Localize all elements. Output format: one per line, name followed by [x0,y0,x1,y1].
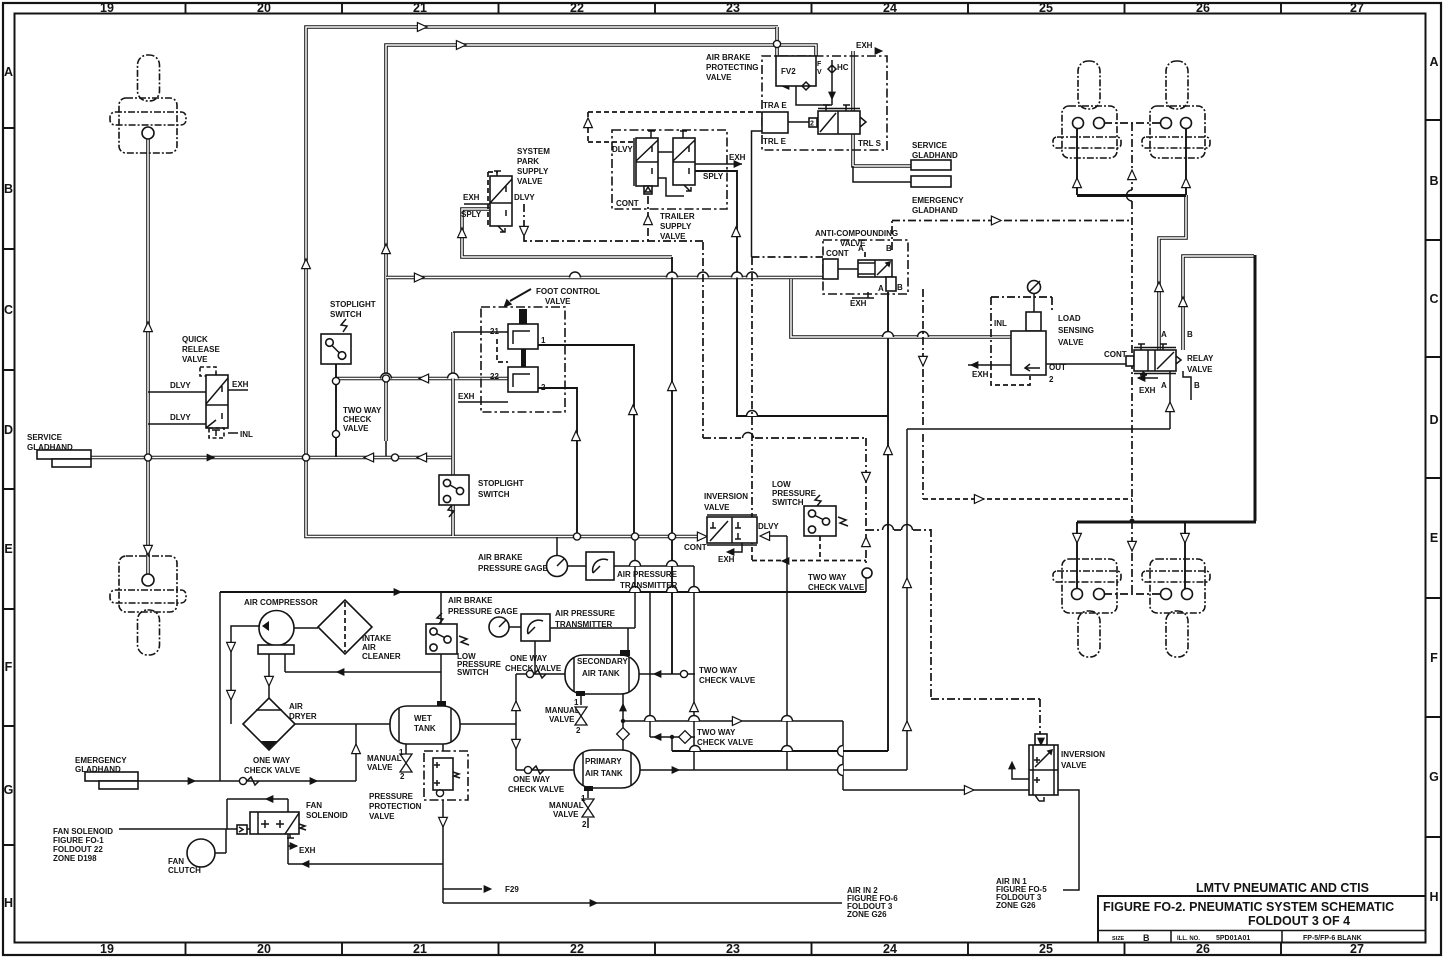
svg-text:TRA E: TRA E [763,101,787,110]
svg-text:SENSING: SENSING [1058,326,1094,335]
svg-text:VALVE: VALVE [517,177,543,186]
svg-text:TANK: TANK [414,724,436,733]
svg-text:GLADHAND: GLADHAND [912,206,958,215]
svg-text:AIR: AIR [289,702,303,711]
emergency gladhand bar left [85,772,138,781]
svg-text:ANTI-COMPOUNDING: ANTI-COMPOUNDING [815,229,898,238]
svg-text:AIR BRAKE: AIR BRAKE [706,53,751,62]
svg-text:MANUAL: MANUAL [549,801,584,810]
svg-text:A: A [858,244,864,253]
svg-text:D: D [4,423,13,437]
dash CTIS center column x1132 [1131,123,1133,594]
svg-text:DLVY: DLVY [758,522,779,531]
svg-text:SWITCH: SWITCH [330,310,362,319]
svg-text:SUPPLY: SUPPLY [517,167,549,176]
svg-text:5PD01A01: 5PD01A01 [1216,935,1250,942]
svg-text:FIGURE FO-1: FIGURE FO-1 [53,836,104,845]
svg-text:SWITCH: SWITCH [478,490,510,499]
svg-text:HC: HC [837,63,849,72]
svg-text:AIR BRAKE: AIR BRAKE [448,596,493,605]
dash anti-compounding CONT x752 [752,257,824,515]
manual valve MV2 [575,707,587,725]
wire x386 lower single [385,441,387,458]
svg-text:SWITCH: SWITCH [457,668,489,677]
humps on buses [570,272,581,278]
wire inversion valve EXH [728,543,742,552]
svg-text:23: 23 [726,942,740,956]
svg-text:AIR BRAKE: AIR BRAKE [478,553,523,562]
wire foot valve feed y378 (double) [336,377,508,381]
svg-text:2: 2 [582,820,587,829]
svg-text:FOLDOUT 3 OF 4: FOLDOUT 3 OF 4 [1248,914,1350,928]
wire transmitter2 drop [550,536,635,650]
svg-text:AIR TANK: AIR TANK [585,769,623,778]
wire relay B riser (double) [1183,256,1254,350]
svg-text:INVERSION: INVERSION [704,492,748,501]
svg-text:A: A [1429,55,1438,69]
svg-text:STOPLIGHT: STOPLIGHT [478,479,524,488]
svg-text:FAN SOLENOID: FAN SOLENOID [53,827,113,836]
TRA E block [762,112,788,133]
front tire valve left [1053,61,1121,158]
primary air tank [574,750,640,788]
wire foot valve delivery 2 [538,388,577,536]
svg-text:EXH: EXH [972,370,989,379]
svg-text:26: 26 [1196,942,1210,956]
svg-text:AIR PRESSURE: AIR PRESSURE [555,609,616,618]
svg-text:EXH: EXH [463,193,480,202]
wire main loop service (double) [306,27,778,537]
svg-text:24: 24 [883,1,897,15]
svg-text:CHECK VALVE: CHECK VALVE [808,583,865,592]
check diamond y737 [679,731,692,744]
svg-text:PARK: PARK [517,157,539,166]
svg-text:TWO WAY: TWO WAY [343,406,382,415]
low pressure switch LPS2 [804,506,836,536]
svg-text:B: B [886,244,892,253]
svg-text:2: 2 [541,383,546,392]
svg-text:F29: F29 [505,885,519,894]
wire wet tank outlet [460,723,516,725]
svg-text:PRESSURE GAGE: PRESSURE GAGE [448,607,518,616]
wire relay B bracket [1138,371,1191,400]
svg-text:EXH: EXH [718,555,735,564]
secondary air tank [565,655,639,694]
manual valve MV1 [400,754,412,772]
hollow arrows [417,23,427,32]
svg-text:ONE WAY: ONE WAY [253,756,291,765]
svg-text:TWO WAY: TWO WAY [808,573,847,582]
svg-text:F: F [817,61,822,68]
wire check drop x866 [865,577,867,592]
svg-text:EXH: EXH [856,41,873,50]
svg-text:V: V [817,69,822,76]
svg-text:B: B [4,182,13,196]
service gladhand bar left [37,450,91,459]
svg-text:B: B [1429,174,1438,188]
gladhand plug bottom left [110,556,186,655]
svg-text:LMTV PNEUMATIC AND CTIS: LMTV PNEUMATIC AND CTIS [1196,881,1369,895]
svg-text:PRESSURE: PRESSURE [772,489,817,498]
wire port21 link [453,331,508,333]
svg-text:A: A [1161,381,1167,390]
service gladhand bar right [911,160,951,170]
svg-text:TWO WAY: TWO WAY [699,666,738,675]
dash anti-comp A pilot [864,252,866,258]
svg-text:CONT: CONT [684,543,707,552]
fan clutch [187,839,215,867]
svg-text:VALVE: VALVE [660,232,686,241]
svg-text:19: 19 [100,942,114,956]
svg-text:VALVE: VALVE [1058,338,1084,347]
svg-text:GLADHAND: GLADHAND [27,443,73,452]
svg-text:CONT: CONT [1104,350,1127,359]
right band ticks [1426,120,1442,837]
dash x923 load sensing pilot [922,289,924,499]
svg-text:TWO WAY: TWO WAY [697,728,736,737]
svg-text:C: C [4,303,13,317]
svg-text:SUPPLY: SUPPLY [660,222,692,231]
wire manual valve stubs [406,694,588,798]
anti-compounding valve ACV [823,240,908,294]
svg-text:EXH: EXH [1139,386,1156,395]
svg-text:G: G [4,783,14,797]
svg-text:CHECK VALVE: CHECK VALVE [505,664,562,673]
dash y220 anti-comp B [892,221,1132,251]
wire inversion valve DLVY [768,536,787,770]
foot control valve FCV [481,307,565,412]
svg-text:21: 21 [490,327,499,336]
svg-text:CHECK VALVE: CHECK VALVE [697,738,754,747]
dash x703 to inversion pilot [703,242,866,566]
manual valve MV3 [582,799,594,817]
wire transmitter1 drop [614,566,694,770]
wire tank crossover y721 [623,721,843,790]
wire emergency gladhand right [853,166,911,182]
fan solenoid valve [237,825,247,834]
svg-text:INL: INL [240,430,253,439]
svg-text:WET: WET [414,714,432,723]
dash system park DLVY control [524,204,703,241]
svg-text:2: 2 [522,314,527,323]
svg-text:PRESSURE GAGE: PRESSURE GAGE [478,564,548,573]
bottom band ticks [186,943,1282,956]
svg-text:DLVY: DLVY [514,193,535,202]
wire rear tires bus [1077,521,1256,524]
svg-text:MANUAL: MANUAL [545,706,580,715]
gladhand plug top left [110,55,186,153]
wire quick release stubs [148,390,248,433]
wire gauge1 tap [557,537,586,566]
svg-text:FOOT CONTROL: FOOT CONTROL [536,287,600,296]
svg-text:ZONE G26: ZONE G26 [847,910,887,919]
wire load sensing out [968,364,1126,365]
wire PPV drop and F29 [443,800,842,903]
wire x672 column [671,257,673,674]
svg-text:PRESSURE: PRESSURE [369,792,414,801]
wire anticomp EXH stub [852,292,874,298]
svg-text:27: 27 [1350,942,1364,956]
wire fan circuit [119,799,443,864]
svg-text:PROTECTION: PROTECTION [369,802,422,811]
svg-text:F: F [5,660,13,674]
air pressure transmitter T1 [586,552,614,580]
svg-text:CHECK VALVE: CHECK VALVE [508,785,565,794]
wire inversion2 feed [843,768,1079,890]
wire secondary to primary x623 [622,653,624,750]
svg-text:STOPLIGHT: STOPLIGHT [330,300,376,309]
svg-text:27: 27 [1350,1,1364,15]
svg-text:CONT: CONT [826,249,849,258]
wire FV2 left feed [775,27,779,56]
wire system park SPLY run (double) [462,209,672,257]
svg-text:F: F [1430,651,1438,665]
svg-text:RELAY: RELAY [1187,354,1214,363]
svg-text:25: 25 [1039,942,1053,956]
pressure protection valve PPV [424,751,468,800]
svg-text:TRANSMITTER: TRANSMITTER [555,620,613,629]
dash y499 run [923,498,1132,500]
svg-text:AIR TANK: AIR TANK [582,669,620,678]
system park supply valve SPSV [490,176,512,226]
svg-text:VALVE: VALVE [549,715,575,724]
svg-text:A: A [878,284,884,293]
svg-text:PROTECTING: PROTECTING [706,63,758,72]
wire foot EXH stub [458,401,508,403]
air pressure gauge G2 [489,617,509,637]
svg-text:GLADHAND: GLADHAND [75,765,121,774]
svg-text:B: B [1194,381,1200,390]
svg-text:CLUTCH: CLUTCH [168,866,201,875]
svg-text:FAN: FAN [168,857,184,866]
svg-text:QUICK: QUICK [182,335,208,344]
svg-text:MANUAL: MANUAL [367,754,402,763]
svg-text:1: 1 [574,698,579,707]
svg-text:EMERGENCY: EMERGENCY [75,756,127,765]
wet tank [390,706,460,744]
svg-text:E: E [1430,531,1438,545]
front tire valve right [1142,61,1210,158]
emergency gladhand bar right [911,176,951,187]
svg-text:2: 2 [400,772,405,781]
svg-text:CHECK VALVE: CHECK VALVE [699,676,756,685]
svg-text:2: 2 [810,121,814,128]
check squiggles [247,670,546,785]
svg-text:INL: INL [994,319,1007,328]
svg-text:B: B [1143,933,1150,943]
svg-text:SOLENOID: SOLENOID [306,811,348,820]
svg-text:ILL. NO.: ILL. NO. [1177,936,1200,942]
check diamond x623 [617,728,630,741]
svg-text:22: 22 [570,942,584,956]
left band ticks [3,128,15,845]
svg-text:VALVE: VALVE [704,503,730,512]
svg-text:SIZE: SIZE [1112,936,1125,942]
svg-text:ONE WAY: ONE WAY [513,775,551,784]
svg-text:VALVE: VALVE [343,424,369,433]
svg-text:B: B [1187,330,1193,339]
wire relay A riser (double) [1159,195,1186,350]
low pressure switch LPS1 [426,624,457,654]
protecting valve element [818,111,860,134]
svg-text:B: B [897,283,903,292]
svg-text:CHECK VALVE: CHECK VALVE [244,766,301,775]
wire x453 column (double) [451,332,455,536]
wire trailer EXH stub [695,163,742,165]
svg-text:AIR PRESSURE: AIR PRESSURE [617,570,678,579]
dash y529 to inversion2 [866,529,1040,734]
stoplight switch SW2 [439,475,469,505]
svg-text:SERVICE: SERVICE [27,433,63,442]
solid arrows [207,454,216,462]
dash trailer CONT drop [647,196,649,241]
wire x516 riser [515,674,517,770]
svg-text:ZONE D198: ZONE D198 [53,854,97,863]
inversion valve IV1 [707,517,757,543]
svg-text:E: E [4,542,12,556]
svg-text:FIGURE FO-2. PNEUMATIC SYSTEM: FIGURE FO-2. PNEUMATIC SYSTEM SCHEMATIC [1103,900,1394,914]
svg-text:EXH: EXH [850,299,867,308]
wire foot valve delivery 1 [538,345,634,536]
svg-text:24: 24 [883,942,897,956]
svg-text:TRL S: TRL S [858,139,882,148]
dash load sensing box [991,297,1052,365]
wire anti-comp to load sensing INL (double) [791,279,1011,337]
svg-text:TRAILER: TRAILER [660,212,695,221]
svg-text:AIR COMPRESSOR: AIR COMPRESSOR [244,598,318,607]
svg-text:22: 22 [570,1,584,15]
svg-text:AIR: AIR [362,643,376,652]
svg-text:FP-5/FP-6 BLANK: FP-5/FP-6 BLANK [1303,935,1362,942]
svg-text:EMERGENCY: EMERGENCY [912,196,964,205]
svg-text:20: 20 [257,942,271,956]
svg-text:D: D [1429,413,1438,427]
svg-text:LOW: LOW [772,480,791,489]
wire secondary out y751 [672,750,888,752]
svg-text:20: 20 [257,1,271,15]
wire compressor enclosure left [138,592,356,781]
svg-text:PRIMARY: PRIMARY [585,757,622,766]
svg-text:EXH: EXH [232,380,249,389]
wire compressor suction loop [231,626,441,724]
wire tire feeds [1077,128,1186,589]
svg-text:CLEANER: CLEANER [362,652,401,661]
svg-text:INTAKE: INTAKE [362,634,392,643]
wire run2 emergency supply (double) [386,45,816,441]
wire LPS1 tap [440,592,442,624]
svg-text:EXH: EXH [299,846,316,855]
svg-text:OUT: OUT [1049,363,1066,372]
svg-text:VALVE: VALVE [369,812,395,821]
svg-text:TRL E: TRL E [763,137,787,146]
wire stoplight sw1 drop [335,364,337,457]
dash system park side [488,172,498,226]
wire relay delivery x907 [907,371,1170,770]
svg-text:21: 21 [413,942,427,956]
wire TRL E drop [752,131,763,257]
air pressure transmitter T2 [521,614,550,641]
svg-text:2: 2 [576,726,581,735]
svg-text:TRANSMITTER: TRANSMITTER [620,581,678,590]
load sensing valve LSV [1028,281,1041,294]
svg-text:A: A [4,65,13,79]
svg-text:C: C [1429,292,1438,306]
svg-text:DRYER: DRYER [289,712,317,721]
wire left gladhand column x148 (double) [146,138,150,578]
dash tire link lines [1104,123,1160,594]
svg-text:DLVY: DLVY [170,413,191,422]
wire service gladhand bus y457 (double) [91,456,453,460]
wire right trunk thick [1254,255,1257,521]
svg-text:SYSTEM: SYSTEM [517,147,550,156]
air brake protecting valve ABPV [762,56,887,150]
svg-text:SPLY: SPLY [461,210,482,219]
quick release valve QR [200,367,216,376]
svg-text:FV2: FV2 [781,67,796,76]
air dryer [243,698,295,750]
svg-text:DLVY: DLVY [170,381,191,390]
svg-text:VALVE: VALVE [367,763,393,772]
svg-text:EXH: EXH [729,153,746,162]
wire front tires bus [1077,194,1186,197]
svg-text:VALVE: VALVE [553,810,579,819]
svg-text:SPLY: SPLY [703,172,724,181]
wire anti-compounding delivery x888 [887,292,889,751]
svg-text:ONE WAY: ONE WAY [510,654,548,663]
wire two way check y737 [650,592,695,751]
wire bus y277 (double) [386,276,823,280]
wire compressor discharge y592 [220,591,866,593]
svg-text:GLADHAND: GLADHAND [912,151,958,160]
wire TRL S exhaust column (double) [853,51,911,166]
svg-text:FOLDOUT 22: FOLDOUT 22 [53,845,103,854]
svg-text:H: H [1429,890,1438,904]
svg-text:SERVICE: SERVICE [912,141,948,150]
intake air cleaner [318,600,372,654]
svg-text:VALVE: VALVE [545,297,571,306]
relay valve RV [1126,356,1134,366]
rear tire valve left [1053,559,1121,657]
svg-text:FAN: FAN [306,801,322,810]
wire system park EXH stub [464,203,490,205]
svg-text:26: 26 [1196,1,1210,15]
svg-text:EXH: EXH [458,392,475,401]
svg-text:SECONDARY: SECONDARY [577,657,628,666]
svg-text:CONT: CONT [616,199,639,208]
svg-text:DLVY: DLVY [612,145,633,154]
svg-text:23: 23 [726,1,740,15]
svg-text:VALVE: VALVE [1187,365,1213,374]
svg-text:19: 19 [100,1,114,15]
wire trailer SPLY run [695,171,888,416]
air pressure gauge G1 [547,556,568,577]
wire secondary tank feed y674 [516,673,695,675]
svg-text:CHECK: CHECK [343,415,372,424]
svg-text:RELEASE: RELEASE [182,345,220,354]
svg-text:LOAD: LOAD [1058,314,1081,323]
junction rings [773,40,780,47]
dash TRA E pilot line [588,112,762,142]
wire gauge2 link [509,627,535,674]
svg-text:H: H [4,896,13,910]
svg-text:25: 25 [1039,1,1053,15]
inversion valve IV2 [1035,734,1047,745]
trailer supply valve TSV [612,130,727,209]
svg-text:1: 1 [399,748,404,757]
svg-text:1: 1 [541,336,546,345]
svg-text:1: 1 [581,794,586,803]
stoplight switch SW1 [321,334,351,364]
